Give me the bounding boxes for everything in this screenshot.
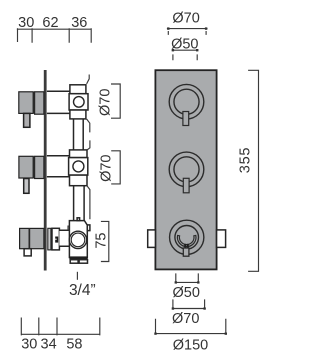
svg-text:36: 36 [71, 15, 87, 31]
svg-text:Ø70: Ø70 [98, 89, 114, 116]
svg-text:Ø150: Ø150 [173, 337, 208, 353]
svg-text:75: 75 [94, 233, 110, 249]
svg-text:Ø50: Ø50 [172, 285, 199, 301]
svg-text:34: 34 [41, 336, 57, 352]
svg-text:58: 58 [66, 336, 82, 352]
svg-text:355: 355 [237, 147, 253, 174]
svg-text:Ø70: Ø70 [99, 154, 115, 181]
svg-text:3/4”: 3/4” [69, 282, 96, 299]
svg-text:Ø70: Ø70 [172, 311, 199, 327]
svg-text:62: 62 [42, 15, 58, 31]
svg-text:Ø70: Ø70 [172, 11, 199, 27]
svg-text:30: 30 [21, 336, 37, 352]
